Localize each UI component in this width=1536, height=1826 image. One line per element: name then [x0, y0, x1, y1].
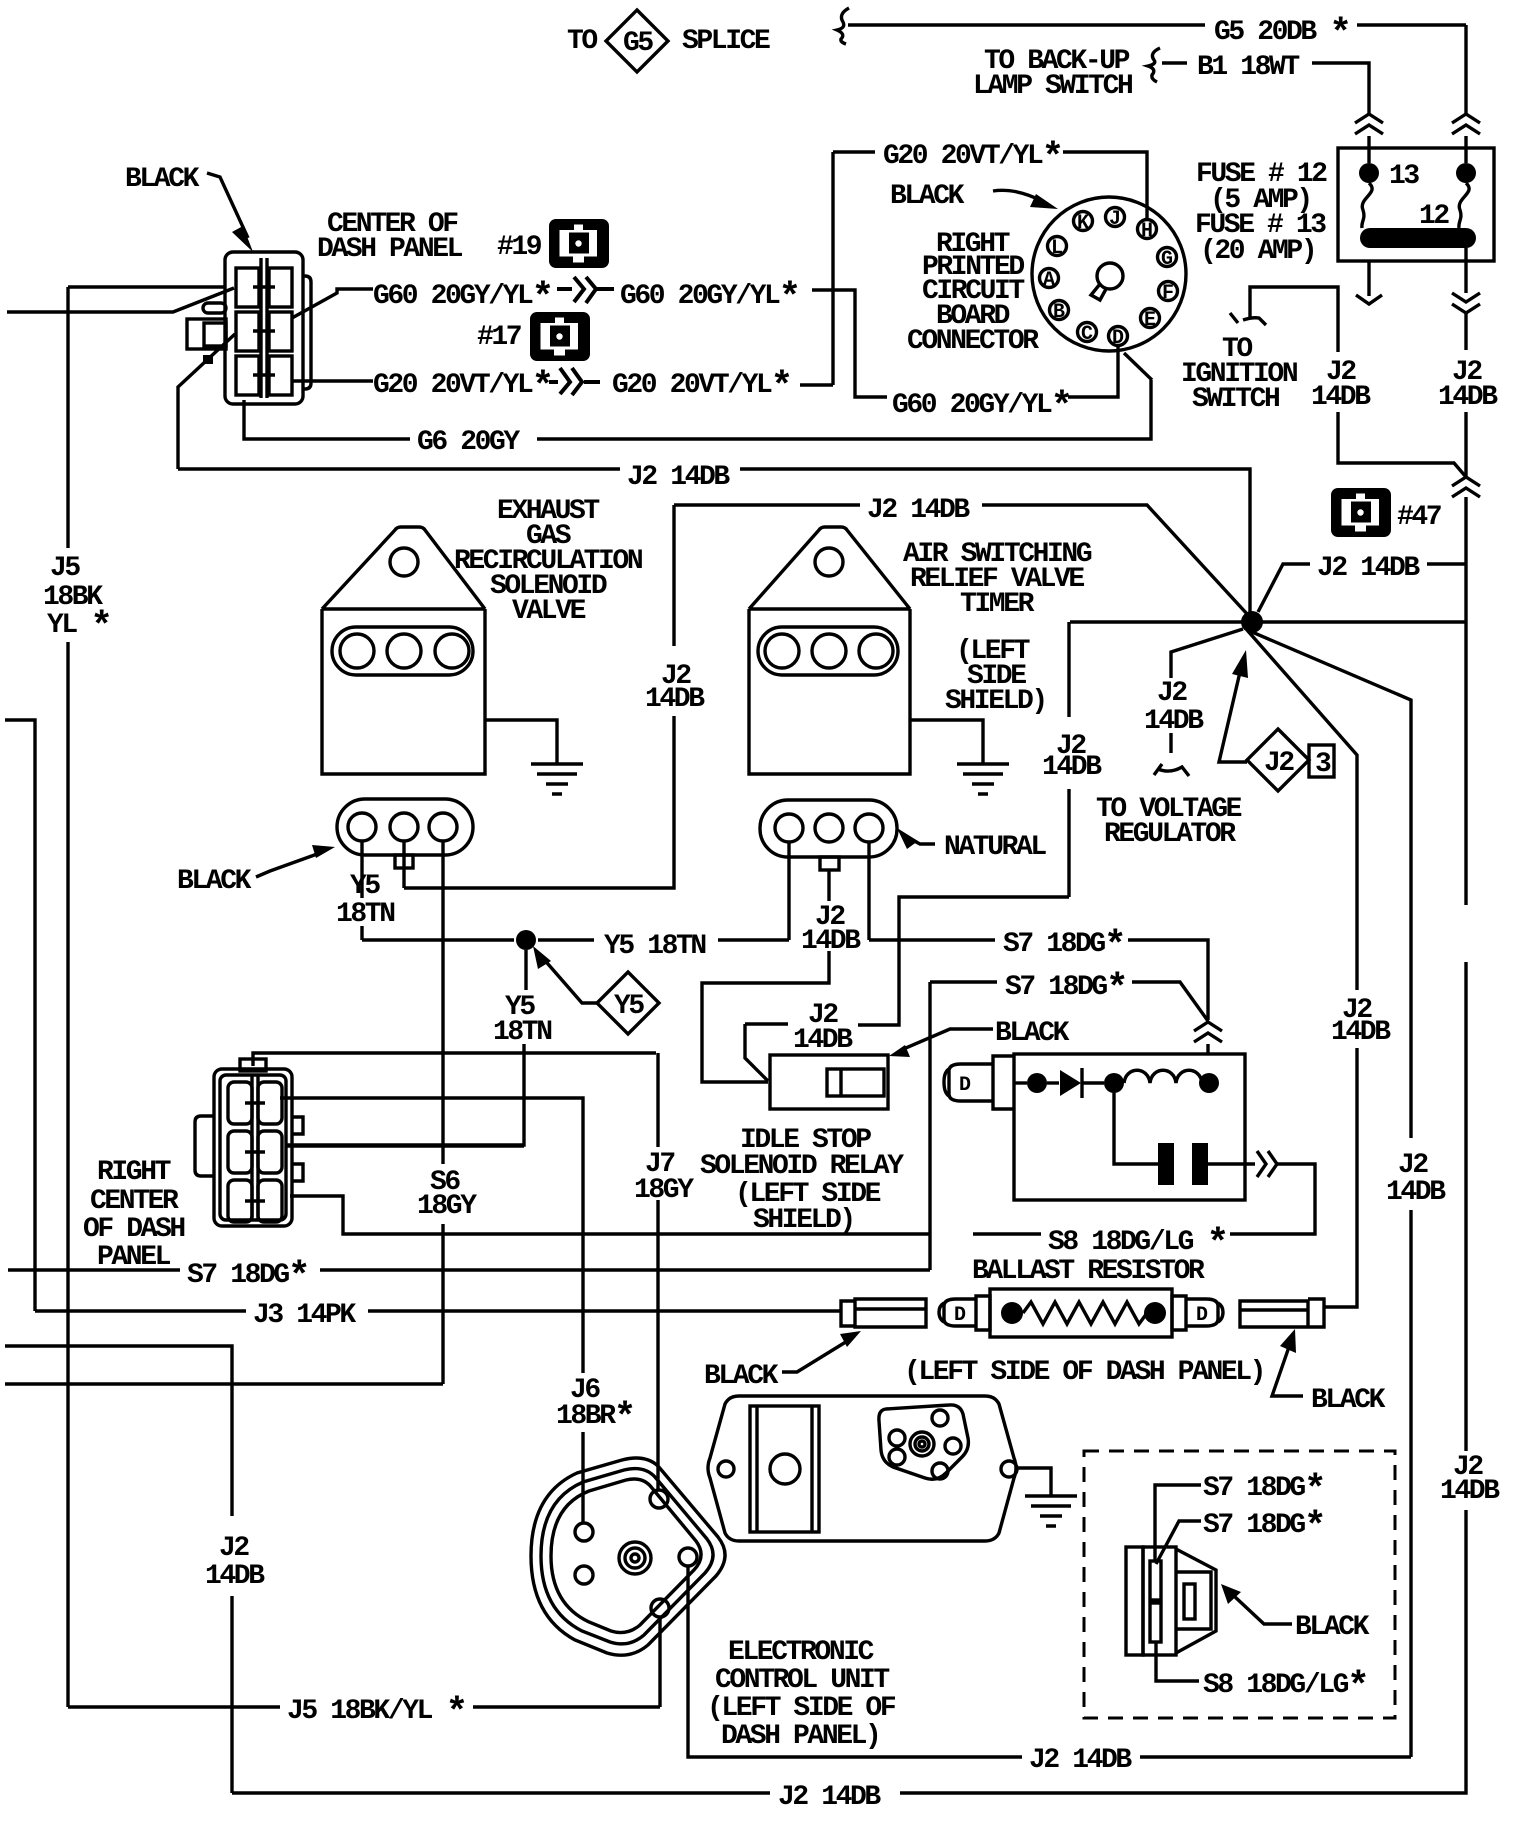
svg-text:J2 14DB: J2 14DB — [778, 1782, 881, 1813]
EGR connector shroud — [332, 627, 473, 675]
wire EGR feed vertical — [404, 505, 674, 888]
svg-text:BLACK: BLACK — [1295, 1612, 1370, 1643]
connector C1 cavity E — [236, 356, 259, 395]
wire node2 to capacitor — [1114, 1093, 1158, 1164]
relay box outline — [1014, 1054, 1245, 1200]
leader S7 detail 1 — [1155, 1485, 1201, 1561]
PCB connector circle — [1032, 197, 1186, 351]
air shroud pin 1 — [765, 634, 799, 668]
EGR valve body — [322, 527, 485, 774]
connector C2 center channel — [245, 1076, 265, 1220]
svg-text:(LEFT SIDE OF: (LEFT SIDE OF — [707, 1693, 896, 1724]
wire into C1 pin 1 from left — [68, 285, 225, 288]
connector C2 left bump — [195, 1116, 214, 1176]
EGR mounting hole — [390, 548, 418, 576]
wire to ignition switch — [1250, 287, 1466, 477]
svg-text:(LEFT SIDE OF DASH PANEL): (LEFT SIDE OF DASH PANEL) — [904, 1357, 1264, 1388]
svg-text:13: 13 — [1389, 161, 1419, 192]
idle stop relay connector — [770, 1055, 888, 1109]
distributor pickup outline middle — [541, 1469, 713, 1644]
fuse box left output with arrow end — [1356, 261, 1382, 304]
svg-text:D: D — [959, 1074, 971, 1097]
leader arrow BLACK to relay connector — [901, 1029, 993, 1050]
svg-text:A: A — [1043, 269, 1055, 292]
EGR shroud pin 3 — [435, 634, 469, 668]
connector C1 cavity D — [269, 312, 292, 351]
break chevrons on fuse 12 feed — [1452, 114, 1480, 134]
svg-text:J2: J2 — [1264, 748, 1294, 779]
EGR harness pin 2 — [390, 813, 418, 841]
svg-text:14DB: 14DB — [1331, 1017, 1391, 1048]
wire S7 row1 — [869, 940, 1208, 1020]
svg-text:CENTER: CENTER — [90, 1186, 179, 1217]
svg-text:J2: J2 — [219, 1533, 249, 1564]
svg-text:BLACK: BLACK — [1311, 1385, 1386, 1416]
pin F — [1159, 282, 1178, 301]
svg-text:TIMER: TIMER — [960, 589, 1035, 620]
wire into fuse box right — [1464, 25, 1467, 163]
capacitor C1 plate 2 — [1192, 1143, 1208, 1185]
svg-text:B: B — [1053, 301, 1065, 324]
svg-text:SOLENOID RELAY: SOLENOID RELAY — [700, 1151, 904, 1182]
leader arrow NATURAL to air harness — [905, 836, 935, 844]
dashed box — [1084, 1451, 1395, 1718]
connector C1 cavity F — [269, 356, 292, 395]
splice diamond G5 — [606, 10, 668, 72]
svg-text:SPLICE: SPLICE — [682, 26, 770, 57]
svg-text:SHIELD): SHIELD) — [753, 1205, 854, 1236]
svg-text:J2 14DB: J2 14DB — [1029, 1745, 1132, 1776]
svg-text:14DB: 14DB — [645, 684, 705, 715]
wire EGR pin1 to Y5 line — [360, 841, 363, 940]
svg-text:H: H — [1141, 220, 1152, 243]
svg-text:18GY: 18GY — [634, 1175, 694, 1206]
wire pin D to G60 label — [1068, 346, 1118, 397]
wire dot to dash connector — [285, 950, 526, 1145]
svg-text:CONNECTOR: CONNECTOR — [907, 326, 1039, 357]
air harness index tab — [820, 857, 839, 870]
connector C1 left tab — [187, 319, 226, 349]
wire G6 20GY long run — [537, 380, 1151, 439]
leader arrow BLACK to EGR harness — [256, 853, 320, 877]
squiggle bracket on B1 wire — [1148, 48, 1160, 82]
svg-text:J2: J2 — [1157, 678, 1187, 709]
svg-text:12: 12 — [1419, 201, 1449, 232]
relay node dot 1 — [1027, 1073, 1047, 1093]
wire J7 vertical — [656, 1053, 659, 1490]
svg-text:BLACK: BLACK — [177, 866, 252, 897]
ECU pod pin left 2 — [889, 1449, 905, 1465]
wire C2 pin1 to J6 — [280, 1098, 583, 1523]
wire G5 20DB — [848, 23, 1466, 26]
connector C1 cavity A — [236, 268, 259, 307]
ballast resistive element — [1023, 1302, 1147, 1324]
svg-text:D: D — [954, 1304, 966, 1327]
air valve mounting hole — [815, 548, 843, 576]
wire distributor right pin to J2 — [688, 1566, 1022, 1757]
svg-text:CONTROL UNIT: CONTROL UNIT — [715, 1665, 889, 1696]
wire G20 label chain vertical — [833, 152, 875, 385]
fuse element 12 squiggle — [1459, 183, 1469, 228]
svg-text:Y5: Y5 — [350, 871, 380, 902]
ECU connector detail rect B — [1143, 1547, 1176, 1655]
ECU connector detail slot 2 — [1150, 1603, 1161, 1642]
air harness pin 2 — [815, 814, 843, 842]
svg-text:3: 3 — [1315, 749, 1331, 780]
wire J2 14DB row 2 with diagonal to hub — [674, 505, 1248, 615]
ballast right harness connector — [1240, 1299, 1324, 1327]
air harness pin 3 — [855, 814, 883, 842]
relay internal wire in — [1014, 1081, 1027, 1084]
svg-text:OF DASH: OF DASH — [83, 1214, 184, 1245]
ECU label plate — [750, 1406, 819, 1532]
svg-text:J2 14DB: J2 14DB — [627, 462, 730, 493]
wire C1 to G20 label — [293, 379, 373, 382]
diode D1 — [1047, 1081, 1059, 1084]
svg-text:D: D — [1196, 1304, 1208, 1327]
junction dot Y5 — [516, 930, 536, 950]
svg-text:#19: #19 — [497, 232, 542, 263]
wire left stub row B — [5, 1382, 443, 1385]
svg-text:BLACK: BLACK — [890, 181, 965, 212]
connector C2 cavity 1L — [228, 1082, 252, 1124]
svg-text:14DB: 14DB — [205, 1561, 265, 1592]
pin L — [1048, 237, 1067, 256]
connector C2 cavity 3R — [258, 1180, 282, 1222]
EGR harness pin 3 — [429, 813, 457, 841]
air shroud pin 3 — [859, 634, 893, 668]
pin C — [1078, 323, 1097, 342]
wire air pin3 S7 drop — [867, 842, 870, 940]
connector C2 inner outline — [220, 1075, 286, 1220]
wire EGR pin3 S6 vertical — [441, 841, 444, 1384]
svg-text:VALVE: VALVE — [512, 596, 586, 627]
ECU connector detail slot 1 — [1150, 1561, 1161, 1600]
fuse box right output — [1464, 261, 1467, 293]
wire hub to ECU trunk — [1252, 632, 1411, 1757]
connector C2 cavity 2R — [258, 1131, 282, 1173]
leader S7 detail 2 — [1156, 1521, 1201, 1564]
wire J3 14PK run — [35, 1309, 841, 1312]
svg-text:BALLAST RESISTOR: BALLAST RESISTOR — [972, 1256, 1205, 1287]
squiggle bracket on G5 wire — [837, 8, 849, 44]
svg-text:14DB: 14DB — [1440, 1476, 1500, 1507]
leader arrow from BLACK to connector — [207, 173, 248, 238]
arrow from J2 diamond to hub — [1219, 672, 1247, 762]
wire capacitor out — [1208, 1162, 1255, 1165]
svg-text:18TN: 18TN — [493, 1017, 551, 1048]
wire diode to node 2 — [1083, 1081, 1104, 1084]
pin K — [1074, 212, 1093, 231]
wire G20 label to pin H — [1063, 152, 1147, 219]
ECU body — [708, 1396, 1016, 1541]
ECU pod pin right — [945, 1438, 961, 1454]
svg-text:G: G — [1161, 248, 1173, 271]
wire J2 upper bottom run — [1140, 1755, 1411, 1758]
fuse 12 terminal dot — [1456, 163, 1476, 183]
svg-text:F: F — [1162, 282, 1173, 305]
pin D — [1109, 327, 1128, 346]
svg-text:14DB: 14DB — [793, 1025, 853, 1056]
svg-text:LAMP SWITCH: LAMP SWITCH — [973, 71, 1132, 102]
wire relay feed with diagonal — [745, 622, 1069, 1081]
fuse 13 terminal dot — [1359, 163, 1379, 183]
main trunk J2 right side — [1464, 313, 1467, 477]
leader arrow BLACK detail — [1234, 1596, 1292, 1624]
ballast left harness connector — [841, 1299, 926, 1327]
wire S7 row2 with diagonal — [930, 982, 1208, 1021]
svg-text:14DB: 14DB — [801, 926, 861, 957]
relay coil L1 — [1124, 1070, 1202, 1083]
svg-text:G5: G5 — [623, 28, 653, 59]
ECU pod pin left 1 — [889, 1430, 905, 1446]
distributor center bushing — [619, 1542, 651, 1574]
wire into fuse box left — [1367, 136, 1370, 163]
wire pin D region diagonal to G6 vertical — [1124, 353, 1152, 380]
wire S8 left dash — [973, 1232, 1041, 1235]
wire hub to ballast drop — [1247, 630, 1357, 1307]
svg-text:RIGHT: RIGHT — [97, 1157, 171, 1188]
break chevrons above #47 — [1452, 477, 1480, 497]
relay D connector — [944, 1056, 1014, 1109]
leader S8 detail — [1156, 1642, 1199, 1681]
relay node dot 2 — [1104, 1073, 1124, 1093]
wire J2 bottom run — [232, 1510, 1466, 1793]
ECU mount hole right — [1001, 1461, 1017, 1477]
svg-text:DASH PANEL): DASH PANEL) — [721, 1721, 879, 1752]
svg-text:E: E — [1144, 309, 1156, 332]
EGR harness pin 1 — [348, 813, 376, 841]
ECU connector pod outline — [879, 1405, 969, 1479]
relay node dot 3 — [1199, 1073, 1219, 1093]
air valve ground wire — [910, 720, 983, 764]
wire S7 18DG* long run — [8, 1268, 930, 1271]
EGR shroud pin 2 — [387, 634, 421, 668]
ground (EGR) — [531, 764, 583, 794]
ballast terminal dot left — [1001, 1302, 1023, 1324]
wire G20 label to vertical — [800, 383, 833, 386]
ECU plate hole — [770, 1454, 800, 1484]
svg-text:Y5: Y5 — [614, 991, 644, 1022]
wire C2 top pin to J7 — [253, 1053, 656, 1066]
connector C1 right bump — [303, 276, 311, 389]
wire C1 to G60 label (diagonal) — [292, 289, 373, 318]
connector C1 cavity C — [236, 312, 259, 351]
wire hub west — [1070, 620, 1242, 623]
connector C2 cavity 2L — [228, 1131, 252, 1173]
ballast D connector right — [1172, 1296, 1223, 1330]
in-line connector icon #47 — [1331, 488, 1391, 537]
splice pin box 3 — [1309, 745, 1334, 777]
svg-text:B1 18WT: B1 18WT — [1197, 52, 1299, 83]
ECU connector detail plug slot — [1184, 1584, 1195, 1619]
PCB center keyway — [1097, 263, 1123, 289]
svg-text:J5: J5 — [50, 553, 80, 584]
EGR ground wire — [485, 720, 557, 764]
wire stub from page edge diagonal into C1 — [7, 288, 234, 312]
ECU mount hole left — [718, 1461, 734, 1477]
leader arrow BLACK to ballast right connector — [1272, 1344, 1303, 1396]
air harness pin 1 — [775, 814, 803, 842]
ground (air valve) — [957, 764, 1009, 794]
wire left stub to J3 — [5, 720, 35, 1311]
trunk segment above bottom corner — [1464, 962, 1467, 1451]
connector C1 center key channel — [253, 258, 275, 398]
voltage regulator out-symbol — [1154, 764, 1189, 776]
svg-text:18TN: 18TN — [336, 899, 394, 930]
svg-text:18GY: 18GY — [417, 1191, 477, 1222]
air valve body — [749, 527, 910, 774]
svg-text:14DB: 14DB — [1042, 752, 1102, 783]
svg-text:#17: #17 — [477, 322, 521, 353]
svg-text:J3 14PK: J3 14PK — [253, 1300, 356, 1331]
in-line connector arrow G60 — [557, 277, 614, 303]
svg-text:ELECTRONIC: ELECTRONIC — [728, 1637, 875, 1668]
EGR shroud pin 1 — [340, 634, 374, 668]
svg-text:G6 20GY: G6 20GY — [417, 427, 520, 458]
svg-text:J2 14DB: J2 14DB — [867, 495, 970, 526]
in-line connector arrow G20 — [549, 368, 600, 395]
pin J — [1106, 208, 1125, 227]
ballast terminal dot right — [1144, 1302, 1166, 1324]
wire hub to voltage regulator stub — [1171, 629, 1243, 753]
ballast D connector left — [939, 1296, 990, 1330]
break chevrons on S8 output — [1257, 1151, 1277, 1177]
distributor pin left upper (J6) — [575, 1523, 593, 1541]
fuse box outline — [1338, 148, 1494, 261]
connector C2 right tab 2 — [292, 1164, 303, 1181]
svg-text:14DB: 14DB — [1438, 382, 1498, 413]
splice block on diagonal — [203, 355, 213, 364]
ground (ECU) — [1025, 1496, 1077, 1526]
svg-text:Y5 18TN: Y5 18TN — [604, 931, 705, 962]
svg-text:SHIELD): SHIELD) — [945, 686, 1046, 717]
svg-text:NATURAL: NATURAL — [944, 832, 1046, 863]
capacitor C1 plate 1 — [1158, 1143, 1174, 1185]
distributor pin top (J7) — [650, 1490, 668, 1508]
splice diamond J2 — [1247, 729, 1309, 791]
connector C1 body (center of dash panel) — [225, 252, 303, 404]
svg-text:14DB: 14DB — [1311, 382, 1371, 413]
svg-text:C: C — [1081, 323, 1093, 346]
wire G60 label chain down to lower G60 label — [812, 290, 887, 397]
fuse element 13 squiggle — [1362, 183, 1372, 228]
wire C1 bottom pin to G6 — [244, 400, 410, 439]
distributor pin left lower — [575, 1566, 593, 1584]
pin B — [1050, 301, 1069, 320]
air shroud pin 2 — [812, 634, 846, 668]
svg-text:TO: TO — [567, 26, 597, 57]
wire S7 down to dash connector — [928, 982, 931, 1270]
connector C2 cavity 3L — [228, 1180, 252, 1222]
pin H — [1138, 220, 1157, 239]
svg-text:(20 AMP): (20 AMP) — [1200, 236, 1315, 267]
air harness connector — [760, 800, 897, 857]
wire air pin2 J2 feed — [702, 870, 829, 1082]
connector C2 top tab — [240, 1059, 266, 1071]
arrow from Y5 diamond to junction — [541, 956, 597, 1003]
distributor pickup outline outer — [531, 1458, 725, 1655]
connector C1 cavity B — [269, 268, 292, 307]
svg-text:14DB: 14DB — [1386, 1177, 1446, 1208]
leader arrow BLACK to ballast left connector — [782, 1340, 849, 1372]
leader arrow BLACK to PCB connector — [993, 190, 1042, 201]
svg-text:L: L — [1051, 237, 1062, 260]
wire hub leader to trunk — [1258, 564, 1466, 612]
wire distributor bottom pin to J5 — [658, 1617, 661, 1707]
break chevrons into relay box — [1194, 1022, 1222, 1042]
wire J5 left vertical — [66, 287, 69, 1707]
connector C1 left latch slot — [203, 303, 226, 313]
in-line connector icon #19 — [549, 219, 609, 268]
wire hub east — [1262, 620, 1466, 623]
EGR harness index tab — [395, 855, 413, 868]
ECU connector detail plug body — [1176, 1549, 1216, 1653]
break chevrons down on right output — [1452, 293, 1480, 313]
wire C2 pin2 to Y5 line — [285, 1144, 524, 1147]
connector C2 right tab 1 — [292, 1117, 303, 1134]
break chevrons on fuse 13 feed — [1355, 114, 1383, 134]
ECU pod pin top — [932, 1410, 948, 1426]
wire J5 run — [68, 1705, 660, 1708]
ECU pod pin bottom — [932, 1463, 948, 1479]
splice diamond Y5 — [597, 972, 659, 1034]
svg-text:#47: #47 — [1397, 502, 1441, 533]
wire S8 to label — [1230, 1164, 1315, 1234]
connector C2 outer body — [214, 1069, 292, 1226]
ECU ground wire — [1018, 1468, 1051, 1496]
svg-text:K: K — [1077, 212, 1089, 235]
wire air pin1 to Y5 line — [787, 842, 790, 940]
svg-text:DASH PANEL: DASH PANEL — [317, 234, 463, 265]
wire C2 pin3 to S7 — [290, 1196, 930, 1234]
wire B1 18WT — [1162, 61, 1187, 64]
ignition switch out-symbol — [1230, 313, 1266, 325]
EGR harness connector — [337, 799, 473, 855]
in-line connector icon #17 — [530, 312, 590, 361]
wire C1 lower cavity diagonal to J5 drop — [178, 334, 235, 469]
wire left stub row A — [5, 1346, 232, 1793]
svg-text:14DB: 14DB — [1144, 706, 1204, 737]
pin A — [1040, 269, 1059, 288]
ballast resistor body — [990, 1289, 1172, 1337]
svg-text:BLACK: BLACK — [704, 1361, 779, 1392]
distributor pin right — [679, 1548, 697, 1566]
wire EGR pin2 stub — [402, 841, 405, 888]
svg-text:REGULATOR: REGULATOR — [1104, 819, 1236, 850]
pin E — [1141, 309, 1160, 328]
pin G — [1158, 248, 1177, 267]
svg-text:J2 14DB: J2 14DB — [1317, 553, 1420, 584]
distributor pickup outline inner — [551, 1479, 701, 1633]
wire Y5 18TN run — [362, 938, 789, 941]
svg-text:BLACK: BLACK — [995, 1018, 1070, 1049]
air valve connector shroud — [758, 627, 898, 675]
wire J2 14DB row 1 — [178, 469, 1250, 612]
fuse bus bar — [1360, 228, 1476, 248]
svg-text:J: J — [1109, 208, 1119, 231]
distributor pin bottom — [651, 1599, 669, 1617]
connector C2 cavity 1R — [258, 1082, 282, 1124]
ECU connector detail plug inner — [1176, 1572, 1211, 1629]
ECU pod bushing — [910, 1432, 934, 1456]
svg-text:BLACK: BLACK — [125, 164, 200, 195]
junction dot J2 hub — [1241, 611, 1263, 633]
wire below bar to box edge — [1464, 248, 1467, 261]
ECU connector detail rect A — [1126, 1547, 1143, 1655]
svg-text:SWITCH: SWITCH — [1192, 384, 1279, 415]
